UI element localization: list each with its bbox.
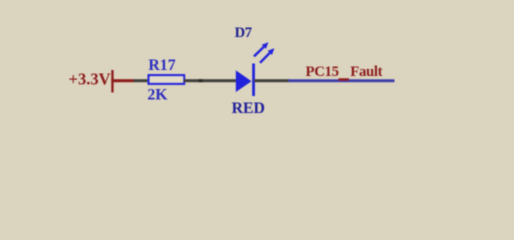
power port +3.3V wire stub [111,79,134,82]
wire: net PC15_Fault [289,79,395,82]
LED D7 emission arrow 1 [254,42,268,56]
LED D7 cathode bar [252,64,255,97]
svg-text:2K: 2K [147,86,168,103]
svg-text:D7: D7 [235,25,252,41]
svg-text:PC15: PC15 [306,64,339,80]
wire: LED cathode pin [254,79,289,82]
junction dot [199,79,203,82]
net label underscore [338,78,349,81]
wire: resistor pin 2 to LED anode pin [184,79,237,82]
LED D7 triangle (anode) [236,70,252,92]
svg-text:RED: RED [232,100,265,117]
LED D7 emission arrow 2 [260,48,274,63]
svg-text:+3.3V: +3.3V [69,70,111,89]
power port +3.3V bar [111,70,113,93]
wire: power to resistor pin 1 [134,79,150,82]
svg-text:R17: R17 [148,57,175,74]
resistor R17 body [149,75,185,84]
sheet background [0,0,514,184]
svg-text:Fault: Fault [350,64,382,80]
